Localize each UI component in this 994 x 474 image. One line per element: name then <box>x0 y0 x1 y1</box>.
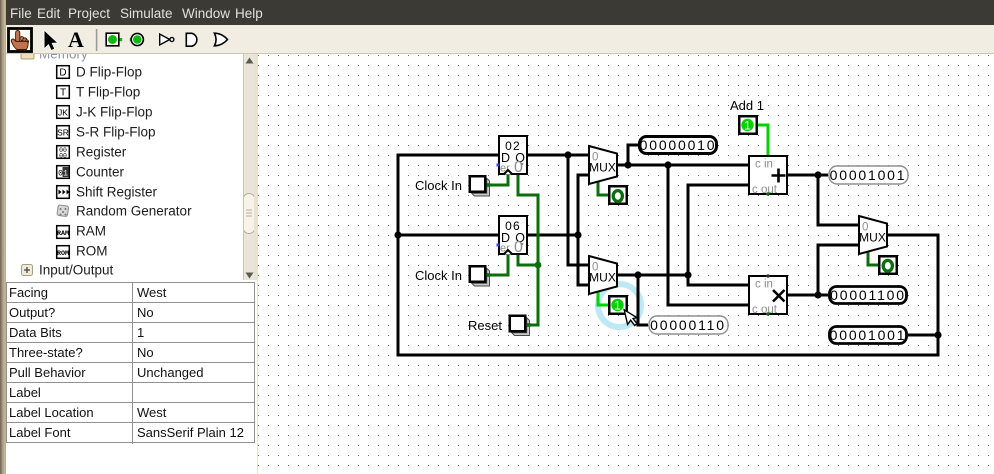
svg-text:D: D <box>59 68 66 79</box>
halo around poked pin <box>598 284 641 327</box>
svg-text:Add 1: Add 1 <box>730 98 764 113</box>
poke tool (selected) <box>9 29 32 52</box>
svg-text:Clock In: Clock In <box>415 178 462 193</box>
ROM icon <box>57 246 70 259</box>
probe value 00000010 <box>640 137 717 154</box>
pin select MUX3 value 0 <box>879 256 897 274</box>
svg-text:J-K Flip-Flop: J-K Flip-Flop <box>76 105 153 120</box>
svg-text:S-R Flip-Flop: S-R Flip-Flop <box>76 125 156 140</box>
button Clock In 2 <box>470 266 490 286</box>
svg-text:00: 00 <box>59 152 67 159</box>
output pin icon <box>130 33 144 45</box>
probe value 00001001 (adder) <box>829 166 908 184</box>
svg-text:00000110: 00000110 <box>650 317 726 333</box>
junction node reg06 Q <box>574 231 581 238</box>
svg-text:T Flip-Flop: T Flip-Flop <box>76 85 140 100</box>
junction node reg02 Q <box>564 151 571 158</box>
wire: clock 1 to register 02 clk <box>488 175 510 187</box>
Counter icon <box>57 166 70 179</box>
menu bar <box>6 0 994 25</box>
svg-text:00001001: 00001001 <box>830 167 907 183</box>
wire: clock 2 to register 06 clk <box>488 255 510 277</box>
Random Generator icon <box>57 205 69 217</box>
node button port 2 <box>487 273 491 277</box>
Input/Output expander <box>22 265 33 276</box>
mouse cursor <box>624 310 637 326</box>
adder U1 <box>749 156 787 196</box>
svg-text:Random Generator: Random Generator <box>76 204 192 219</box>
node button port 1 <box>487 183 491 187</box>
wire: MUX1 select <box>597 181 609 197</box>
wire: adder out to probe <box>788 174 828 177</box>
svg-text:c in: c in <box>755 279 773 291</box>
OR gate icon <box>214 33 227 46</box>
panel/canvas divider <box>254 54 259 474</box>
node button port reset <box>527 323 531 327</box>
svg-text:T: T <box>60 88 66 99</box>
clipped Memory library row <box>21 47 88 62</box>
wire: MUX2 net vertical, adder input b, multiplier input a <box>687 184 749 287</box>
wire: branch up to probe 00000010 <box>627 144 639 167</box>
junction node mult b tap <box>664 161 671 168</box>
tree scrollbar <box>243 54 255 280</box>
window left border <box>0 0 6 474</box>
wire: MUX2 out toward adder/multiplier <box>618 274 688 277</box>
Shift Register icon <box>57 186 70 199</box>
svg-text:0: 0 <box>514 159 523 176</box>
svg-text:Input/Output: Input/Output <box>39 263 114 278</box>
junction node probe1 tap <box>624 161 631 168</box>
D Flip-Flop icon <box>57 66 70 79</box>
junction node mult out <box>814 291 821 298</box>
svg-text:00000010: 00000010 <box>640 137 717 153</box>
wire: multiplier out to probe <box>788 294 828 297</box>
wire: adder out branch to MUX3 input a <box>817 175 859 227</box>
pin select MUX1 value 0 <box>609 186 627 204</box>
pin Add 1 value 1 <box>739 116 757 134</box>
attribute table <box>6 280 257 474</box>
wire: MUX3 select <box>867 251 879 267</box>
register R06 <box>497 216 528 256</box>
toolbar <box>6 25 994 54</box>
svg-text:ROM: ROM <box>76 244 108 259</box>
S-R Flip-Flop icon <box>57 126 70 139</box>
svg-text:MUX: MUX <box>589 161 616 175</box>
svg-text:MUX: MUX <box>589 271 616 285</box>
svg-text:Clock In: Clock In <box>415 268 462 283</box>
canvas <box>258 54 994 474</box>
junction node loop probe <box>934 331 941 338</box>
Register icon <box>57 146 70 160</box>
register R02 <box>497 136 528 176</box>
wire: feedback loop MUX3 out to register D inputs <box>397 154 940 357</box>
junction node reg06 D <box>394 231 401 238</box>
wire: multiplier out branch to MUX3 input b <box>817 244 859 296</box>
wire: reg06 Q vertical to MUX1/MUX2 inputs <box>577 174 589 287</box>
svg-text:RAM: RAM <box>57 230 69 238</box>
svg-text:MUX: MUX <box>859 231 886 245</box>
svg-text:1: 1 <box>744 121 750 133</box>
svg-text:00001100: 00001100 <box>830 287 906 303</box>
multiplexer MUX1 <box>589 146 617 184</box>
svg-text:1: 1 <box>63 169 68 178</box>
probe value 00001001 (loop) <box>830 327 907 344</box>
wire: branch to register 06 en <box>517 255 539 267</box>
svg-text:SR: SR <box>57 127 69 137</box>
wire: MUX2 select <box>597 291 609 307</box>
wire: branch to register 06 D <box>398 234 498 237</box>
wire: register 02 Q to MUX1 input <box>528 154 588 157</box>
button Clock In 1 <box>470 176 490 196</box>
wire: MUX1 out to adder input a <box>618 164 748 167</box>
input pin icon <box>106 33 122 46</box>
probe value 00000110 (MUX2) <box>649 316 728 334</box>
button Reset <box>510 316 530 336</box>
RAM icon <box>57 226 70 239</box>
AND gate icon <box>186 33 197 46</box>
svg-text:Register: Register <box>76 145 127 160</box>
svg-text:JK: JK <box>58 107 68 117</box>
svg-text:D Flip-Flop: D Flip-Flop <box>76 65 142 80</box>
T Flip-Flop icon <box>57 86 70 99</box>
wire: Add 1 constant to adder c in <box>758 124 770 156</box>
J-K Flip-Flop icon <box>57 106 70 119</box>
wire: branch down to multiplier input b <box>667 165 749 307</box>
wire: reset to en net <box>528 324 538 327</box>
multiplexer MUX2 <box>589 256 617 294</box>
junction node en net <box>535 262 542 269</box>
pin select MUX2 value 1 <box>609 296 627 314</box>
junction node adder out <box>814 171 821 178</box>
svg-text:c in: c in <box>755 159 773 171</box>
NOT gate icon <box>160 34 174 45</box>
svg-text:Memory: Memory <box>39 54 88 62</box>
wire: register 06 Q to vertical <box>528 234 578 237</box>
junction node probe5 tap <box>634 271 641 278</box>
svg-text:c out: c out <box>752 304 778 316</box>
svg-text:ROM: ROM <box>57 250 69 258</box>
svg-text:Reset: Reset <box>468 318 502 333</box>
probe value 00001100 (multiplier) <box>830 287 907 304</box>
select tool <box>45 31 58 50</box>
multiplier U2 <box>749 274 787 316</box>
svg-text:Counter: Counter <box>76 165 125 180</box>
explorer tree <box>6 54 243 281</box>
wire: branch down to probe 00000110 <box>637 275 649 327</box>
svg-text:00001001: 00001001 <box>830 327 907 343</box>
svg-text:1: 1 <box>614 301 620 313</box>
wire: bottom probe to feedback loop <box>908 334 938 337</box>
multiplexer MUX3 <box>859 216 887 254</box>
svg-text:RAM: RAM <box>76 224 106 239</box>
wire: register 02 en down <box>517 175 540 327</box>
wire: register 02 Q down to MUX2 input <box>567 155 589 267</box>
toolbar separator <box>96 29 98 51</box>
svg-text:Shift Register: Shift Register <box>76 185 158 200</box>
svg-text:A: A <box>68 27 84 52</box>
junction node mult a tap <box>684 271 691 278</box>
svg-text:0: 0 <box>514 239 523 256</box>
svg-text:c out: c out <box>752 184 778 196</box>
